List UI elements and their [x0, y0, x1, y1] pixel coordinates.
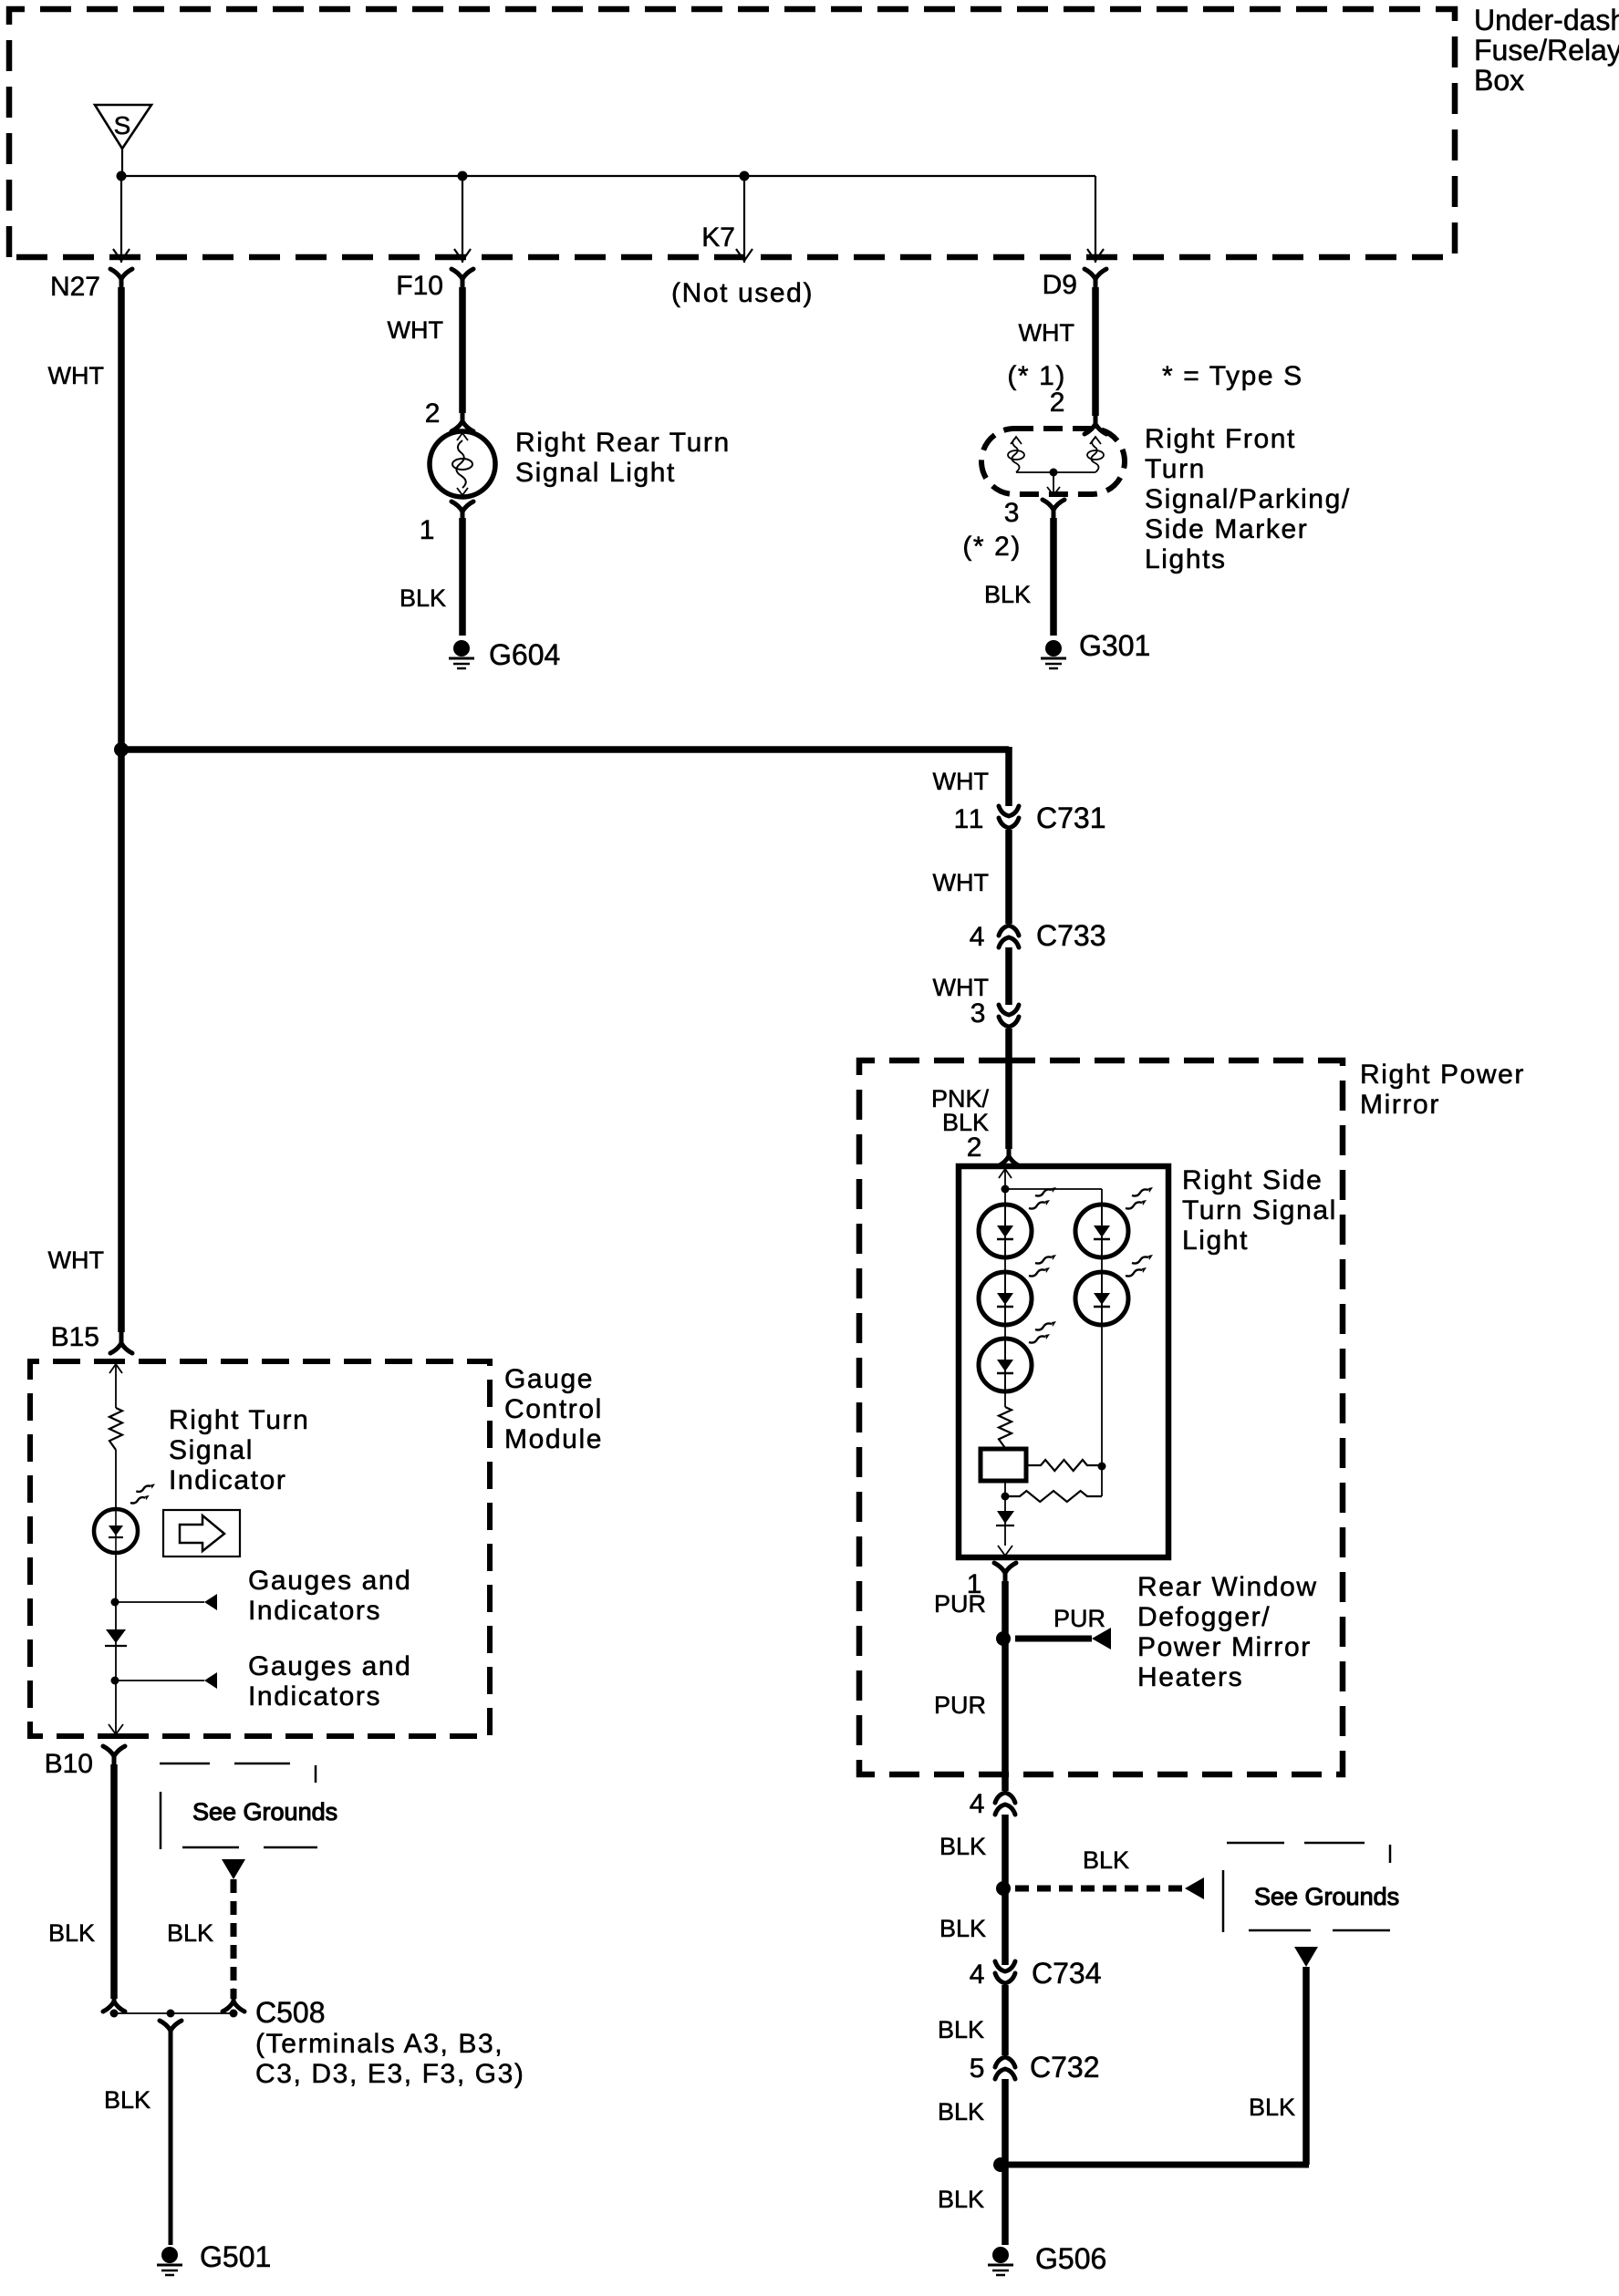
svg-text:BLK: BLK: [984, 581, 1031, 608]
svg-text:Box: Box: [1474, 64, 1524, 97]
connector: G501 wire fork: [160, 2021, 182, 2043]
svg-text:WHT: WHT: [933, 869, 989, 896]
LED D3 (left bottom): [979, 1339, 1032, 1391]
ref triangle: from grounds (right): [1294, 1947, 1318, 1967]
label: BLK on G501 wire: [104, 2086, 150, 2114]
svg-text:Right Side: Right Side: [1182, 1165, 1323, 1195]
wire: dashed BLK branch: [1015, 1886, 1185, 1892]
svg-text:4: 4: [970, 1789, 986, 1819]
connector B15 (fork): [110, 1332, 132, 1353]
wire: BLK to G604: [459, 518, 466, 636]
ref triangle: from grounds (left): [222, 1859, 245, 1879]
lamp housing: right front combo light (dashed stadium): [981, 429, 1125, 494]
label: Under-dash Fuse/Relay Box: [1474, 4, 1619, 97]
node: junction at S drop: [117, 171, 127, 181]
wire: mirror box exit to connector 4: [1001, 1774, 1009, 1791]
svg-text:Power Mirror: Power Mirror: [1137, 1632, 1312, 1662]
label: K7 terminal: [701, 222, 735, 253]
svg-text:PUR: PUR: [934, 1590, 986, 1618]
relay box in side light: [981, 1449, 1026, 1481]
connector pin 3 (inline): [999, 1005, 1019, 1027]
label: pin 2 of front light: [1050, 388, 1066, 418]
label: Gauges and Indicators 2: [248, 1651, 411, 1712]
node: G506 junction: [993, 2157, 1008, 2172]
bulb: right rear turn signal light: [430, 431, 495, 497]
svg-text:5: 5: [970, 2053, 986, 2084]
svg-text:3: 3: [970, 998, 987, 1029]
right side turn signal light box: [959, 1166, 1168, 1557]
wire: side light internal top rail: [1005, 1189, 1102, 1496]
resistor R3 (horizontal lower): [1005, 1491, 1102, 1502]
svg-text:Turn: Turn: [1145, 454, 1206, 484]
node: below relay junction: [1001, 1493, 1010, 1501]
label: BLK on G301 wire: [984, 581, 1031, 608]
connector: front light pin 3 fork: [1043, 500, 1064, 522]
wire: front light internal bottom rail: [1016, 471, 1095, 473]
svg-text:Mirror: Mirror: [1360, 1090, 1440, 1120]
svg-text:11: 11: [954, 804, 985, 834]
svg-text:Indicator: Indicator: [169, 1465, 286, 1495]
label: (* 1): [1007, 361, 1066, 391]
svg-text:Defogger/: Defogger/: [1137, 1602, 1271, 1632]
svg-text:Lights: Lights: [1145, 544, 1227, 574]
node: gauge junction 1: [111, 1598, 119, 1607]
svg-text:B15: B15: [51, 1322, 99, 1352]
svg-text:D9: D9: [1043, 270, 1077, 300]
wire: gauge module internal column: [109, 1361, 122, 1408]
svg-text:N27: N27: [50, 272, 100, 302]
label: pin 4 below mirror: [970, 1789, 986, 1819]
label: pin 4 at C734: [970, 1960, 986, 1990]
connector: side light pin 1 fork: [994, 1563, 1016, 1585]
svg-text:Under-dash: Under-dash: [1474, 4, 1619, 36]
connector: dashed wire end fork: [223, 1991, 244, 2012]
node: side light top junction: [1001, 1185, 1010, 1194]
wire: D9 WHT vertical: [1092, 287, 1099, 416]
svg-text:3: 3: [1004, 498, 1021, 528]
svg-text:Turn Signal: Turn Signal: [1182, 1195, 1337, 1226]
label: See Grounds (right): [1254, 1883, 1399, 1910]
svg-text:Gauge: Gauge: [504, 1364, 594, 1394]
wire: WHT C733-pin3: [1005, 947, 1012, 1005]
connector F10 (fork): [451, 269, 473, 291]
label: BLK below G506 junction: [938, 2186, 984, 2213]
label: N27 terminal: [50, 272, 100, 302]
label: WHT between C731/C733: [933, 869, 989, 896]
svg-text:Indicators: Indicators: [248, 1681, 381, 1712]
svg-text:* = Type S: * = Type S: [1162, 361, 1303, 391]
wire: internal bus: [121, 175, 1095, 177]
wire: side light exit arrow: [998, 1546, 1012, 1556]
svg-text:See Grounds: See Grounds: [192, 1798, 337, 1825]
wire: PUR vertical: [1001, 1581, 1009, 1774]
turn arrow icon: [180, 1515, 224, 1551]
label: BLK on G604 wire: [400, 584, 446, 612]
connector 4 (inline, below mirror): [995, 1793, 1015, 1815]
wire: below relay: [1004, 1482, 1006, 1546]
label: F10 terminal: [396, 271, 443, 301]
wire: resistor to LED: [115, 1450, 117, 1510]
label: BLK on dashed wire: [167, 1919, 213, 1947]
label: PNK/BLK: [931, 1085, 990, 1136]
svg-text:2: 2: [425, 398, 441, 429]
see grounds box (right): [1223, 1843, 1390, 1932]
svg-text:Side Marker: Side Marker: [1145, 514, 1308, 544]
svg-text:S: S: [114, 111, 131, 140]
label: Gauges and Indicators 1: [248, 1566, 411, 1626]
svg-text:C731: C731: [1036, 802, 1106, 834]
rays of LED D5: [1126, 1255, 1153, 1277]
svg-text:PUR: PUR: [1053, 1605, 1105, 1632]
svg-text:Signal/Parking/: Signal/Parking/: [1145, 484, 1351, 514]
node: front light internal junction: [1050, 469, 1058, 477]
wire+ref arrow: gauges and indicators 2: [115, 1672, 217, 1689]
node: C508 dot middle: [167, 2010, 175, 2018]
label: WHT between C733/3: [933, 974, 989, 1001]
svg-text:WHT: WHT: [933, 974, 989, 1001]
label: pin 4 at C733: [970, 922, 986, 952]
svg-text:Gauges and: Gauges and: [248, 1566, 411, 1596]
wire: BLK to junction: [1001, 1815, 1009, 1965]
label: C732: [1030, 2051, 1100, 2084]
label: WHT on F10 wire: [388, 316, 443, 344]
svg-text:Light: Light: [1182, 1226, 1249, 1256]
svg-text:F10: F10: [396, 271, 443, 301]
svg-text:WHT: WHT: [933, 768, 989, 795]
rays of LED D2: [1029, 1255, 1056, 1277]
gauge control module enclosure (dashed box): [30, 1361, 490, 1736]
filament: front light right: [1087, 437, 1104, 472]
svg-text:C508: C508: [255, 1996, 326, 2029]
fuse S symbol (triangle): [95, 105, 151, 149]
wire: gauge module exit: [109, 1681, 123, 1736]
svg-text:Signal Light: Signal Light: [515, 458, 676, 488]
wire: C508 rail: [114, 2012, 234, 2014]
svg-text:BLK: BLK: [400, 584, 446, 612]
wire: drop to F10: [454, 176, 471, 263]
label: WHT on D9 wire: [1019, 319, 1074, 346]
connector C733 (inline): [999, 926, 1019, 947]
svg-text:WHT: WHT: [388, 316, 443, 344]
svg-text:(* 2): (* 2): [962, 532, 1022, 562]
wire: B10 BLK vertical: [110, 1764, 118, 1999]
label: pin 2 of side light: [967, 1132, 983, 1163]
svg-text:Module: Module: [504, 1424, 603, 1454]
wire+ref arrow: gauges and indicators 1: [115, 1594, 217, 1610]
LED: right turn signal indicator: [94, 1509, 138, 1553]
svg-text:1: 1: [420, 515, 436, 545]
wire: into right power mirror: [1005, 1029, 1012, 1149]
node: junction N27/branch: [114, 742, 129, 757]
label: BLK below junction: [939, 1915, 986, 1942]
label: (* 2): [962, 532, 1022, 562]
label: pin 1 of rear light: [420, 515, 436, 545]
node: junction at K7 drop: [740, 171, 750, 181]
label: BLK above G506 junction: [938, 2098, 984, 2125]
node: gauge junction 2: [111, 1677, 119, 1685]
ground G301: [1041, 640, 1066, 668]
label: Gauge Control Module: [504, 1364, 603, 1454]
label: BLK on dashed branch: [1083, 1846, 1129, 1874]
wire: right BLK vertical: [1302, 1967, 1310, 2165]
svg-text:C732: C732: [1030, 2051, 1100, 2084]
connector C731 (inline): [999, 806, 1019, 828]
wire: drop to K7: [736, 176, 752, 263]
label: G506: [1035, 2242, 1106, 2275]
LED D1 (left top): [979, 1205, 1032, 1257]
svg-text:(Not used): (Not used): [671, 278, 814, 308]
label: Right Side Turn Signal Light: [1182, 1165, 1337, 1256]
label: Rear Window Defogger/ Power Mirror Heaters: [1137, 1572, 1318, 1692]
wire: bottom horizontal to right vertical: [1001, 2162, 1309, 2168]
label: Right Rear Turn Signal Light: [515, 428, 731, 488]
label: PUR on branch: [1053, 1605, 1105, 1632]
svg-text:PUR: PUR: [934, 1691, 986, 1719]
svg-text:BLK: BLK: [939, 1833, 986, 1860]
ground G501: [157, 2247, 182, 2275]
label: pin 1 of side light: [967, 1569, 983, 1599]
node: PUR junction: [996, 1631, 1011, 1646]
label: C733: [1036, 919, 1106, 952]
svg-text:Indicators: Indicators: [248, 1596, 381, 1626]
turn arrow icon box: [163, 1510, 240, 1557]
label: C731: [1036, 802, 1106, 834]
wire: S symbol stem: [121, 149, 123, 176]
right power mirror enclosure (dashed box): [859, 1060, 1343, 1774]
label: * = Type S: [1162, 361, 1303, 391]
wire: BLK C732 to junction: [1001, 2079, 1009, 2245]
label: See Grounds (left): [192, 1798, 337, 1825]
svg-text:Fuse/Relay: Fuse/Relay: [1474, 34, 1619, 67]
svg-text:BLK: BLK: [104, 2086, 150, 2114]
svg-text:4: 4: [970, 922, 986, 952]
svg-text:Right Power: Right Power: [1360, 1060, 1525, 1090]
svg-text:K7: K7: [701, 222, 735, 253]
LED D5 (right middle): [1075, 1272, 1128, 1325]
label: B10 terminal: [45, 1749, 93, 1779]
wire: BLK C734-C732: [1001, 1985, 1009, 2055]
label: Right Power Mirror: [1360, 1060, 1525, 1120]
connector B10 (fork): [103, 1746, 125, 1768]
svg-text:See Grounds: See Grounds: [1254, 1883, 1399, 1910]
label: G501: [200, 2240, 271, 2273]
svg-text:G501: G501: [200, 2240, 271, 2273]
svg-text:G604: G604: [489, 638, 560, 671]
ground G604: [449, 640, 474, 668]
label: B15 terminal: [51, 1322, 99, 1352]
connector C732 (inline): [995, 2057, 1015, 2079]
wire: dashed BLK from grounds: [231, 1879, 237, 1999]
svg-text:BLK: BLK: [1249, 2094, 1295, 2121]
svg-text:BLK: BLK: [938, 2016, 984, 2043]
wire: side light internal left column: [999, 1166, 1012, 1407]
svg-text:Control: Control: [504, 1394, 603, 1424]
wire: N27 WHT vertical: [118, 287, 125, 1332]
connector: pin 2 fork: [451, 410, 473, 431]
label: BLK on B10 wire: [48, 1919, 95, 1947]
wire: BLK to G501: [169, 2039, 173, 2245]
label: (Not used): [671, 278, 814, 308]
node: C508 dot right: [230, 2010, 238, 2018]
rays of LED D3: [1029, 1321, 1056, 1343]
svg-text:2: 2: [967, 1132, 983, 1163]
svg-text:(Terminals A3, B3,: (Terminals A3, B3,: [255, 2029, 503, 2059]
connector D9 (fork): [1085, 269, 1106, 291]
rays of LED D1: [1029, 1187, 1056, 1209]
wire: PUR branch: [1015, 1636, 1092, 1642]
wire: drop to N27: [113, 176, 130, 263]
svg-text:C733: C733: [1036, 919, 1106, 952]
label: pin 2 of rear light: [425, 398, 441, 429]
connector: pin 1 fork: [451, 502, 473, 523]
wire: F10 WHT vertical: [459, 287, 466, 413]
connector: front light pin 2 fork: [1085, 413, 1106, 434]
resistor R4 (indicator): [109, 1408, 122, 1450]
svg-text:G506: G506: [1035, 2242, 1106, 2275]
wire: front light internal exit: [1047, 472, 1060, 497]
ref arrow: PUR branch to defogger: [1092, 1628, 1111, 1650]
label: D9 terminal: [1043, 270, 1077, 300]
label: WHT on N27 wire: [48, 362, 104, 389]
rays of LED D4: [1126, 1187, 1153, 1209]
diode D7 (gauge module): [105, 1629, 127, 1646]
svg-text:4: 4: [970, 1960, 986, 1990]
svg-text:BLK: BLK: [167, 1919, 213, 1947]
label: pin 3 of front light: [1004, 498, 1021, 528]
svg-text:BLK: BLK: [938, 2098, 984, 2125]
svg-text:C3, D3, E3, F3, G3): C3, D3, E3, F3, G3): [255, 2059, 525, 2089]
connector: side light pin 2 fork: [998, 1145, 1020, 1166]
ground G506: [988, 2247, 1013, 2275]
label: WHT on N27 wire lower: [48, 1246, 104, 1274]
resistor R2 (horizontal to right column): [1026, 1460, 1102, 1471]
rays of turn indicator LED: [130, 1484, 155, 1503]
label: G301: [1079, 629, 1150, 662]
svg-text:2: 2: [1050, 388, 1066, 418]
svg-text:Signal: Signal: [169, 1435, 254, 1465]
svg-text:B10: B10: [45, 1749, 93, 1779]
node: right column junction: [1098, 1463, 1106, 1471]
connector C734 (inline): [995, 1961, 1015, 1983]
under-dash fuse/relay box (dashed enclosure): [9, 9, 1455, 257]
svg-text:WHT: WHT: [1019, 319, 1074, 346]
svg-text:Rear Window: Rear Window: [1137, 1572, 1318, 1602]
see grounds box (left): [160, 1763, 317, 1849]
svg-text:Gauges and: Gauges and: [248, 1651, 411, 1681]
label: Right Front Turn Signal/Parking/ Side Marker Lights: [1145, 424, 1351, 574]
wire: WHT C731-C733: [1005, 830, 1012, 924]
label: PUR left lower: [934, 1691, 986, 1719]
label: WHT above C731: [933, 768, 989, 795]
svg-text:WHT: WHT: [48, 1246, 104, 1274]
resistor R1 (vertical): [999, 1407, 1012, 1448]
svg-text:Heaters: Heaters: [1137, 1662, 1243, 1692]
label: Right Turn Signal Indicator: [169, 1405, 309, 1495]
svg-text:Right Front: Right Front: [1145, 424, 1296, 454]
label: BLK between C734/C732: [938, 2016, 984, 2043]
label: C508 (Terminals A3, B3, C3, D3, E3, F3, G3): [255, 1996, 525, 2089]
svg-text:BLK: BLK: [939, 1915, 986, 1942]
svg-text:Right Turn: Right Turn: [169, 1405, 309, 1435]
label: pin 11 at C731: [954, 804, 985, 834]
node: BLK junction: [996, 1881, 1011, 1896]
svg-text:WHT: WHT: [48, 362, 104, 389]
connector: B10 wire end fork: [103, 1991, 125, 2012]
connector N27 (fork): [110, 269, 132, 291]
label: PUR left upper: [934, 1590, 986, 1618]
svg-text:BLK: BLK: [48, 1919, 95, 1947]
ref arrow: BLK branch to grounds: [1185, 1877, 1204, 1899]
wire: LED to junction 1: [115, 1553, 117, 1681]
svg-text:Right Rear Turn: Right Rear Turn: [515, 428, 731, 458]
svg-text:G301: G301: [1079, 629, 1150, 662]
wire: BLK to G301: [1050, 518, 1057, 636]
label: BLK on right vertical: [1249, 2094, 1295, 2121]
filament: front light left: [1008, 437, 1024, 472]
node: junction at F10 drop: [458, 171, 468, 181]
label: C734: [1032, 1957, 1102, 1990]
label: G604: [489, 638, 560, 671]
diode D6 (down): [996, 1511, 1014, 1525]
svg-text:BLK: BLK: [1083, 1846, 1129, 1874]
wire: branch to right power mirror: [119, 747, 1009, 806]
label: BLK above junction: [939, 1833, 986, 1860]
label: pin 5 at C732: [970, 2053, 986, 2084]
LED D4 (right top): [1075, 1205, 1128, 1257]
LED D2 (left middle): [979, 1272, 1032, 1325]
wire: drop to D9: [1087, 176, 1104, 263]
svg-text:BLK: BLK: [938, 2186, 984, 2213]
label: pin 3: [970, 998, 987, 1029]
node: C508 dot left: [110, 2010, 119, 2018]
svg-text:C734: C734: [1032, 1957, 1102, 1990]
